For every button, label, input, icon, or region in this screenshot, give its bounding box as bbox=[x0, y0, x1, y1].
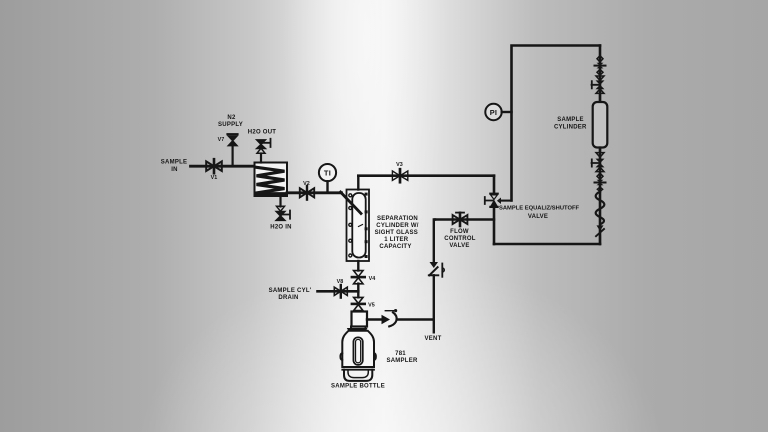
svg-text:1 LITER: 1 LITER bbox=[384, 237, 409, 243]
valve H2O OUT bbox=[248, 130, 277, 163]
svg-text:VALVE: VALVE bbox=[528, 214, 548, 220]
check valve vent bbox=[429, 262, 444, 277]
svg-text:FLOW: FLOW bbox=[450, 229, 469, 235]
svg-text:SUPPLY: SUPPLY bbox=[218, 122, 243, 128]
instrument PI bbox=[485, 104, 511, 120]
sample bottle body bbox=[342, 331, 374, 367]
svg-text:V7: V7 bbox=[218, 137, 225, 143]
sample bottle collar bbox=[347, 328, 368, 331]
svg-text:SAMPLE CYL': SAMPLE CYL' bbox=[269, 288, 312, 294]
wire N2 branch bbox=[232, 146, 234, 167]
wire flow control branch bbox=[435, 218, 494, 220]
node flow control label bbox=[444, 229, 475, 249]
valve V3 bbox=[392, 162, 407, 182]
node separator label bbox=[375, 216, 419, 250]
valve V1 bbox=[206, 159, 222, 181]
node SAMPLE CYLINDER label bbox=[554, 117, 587, 131]
check valve sampler bbox=[382, 309, 434, 326]
node equalizer valve label bbox=[499, 205, 580, 220]
heat exchanger coil bbox=[256, 167, 284, 193]
valve H2O IN bbox=[270, 196, 292, 230]
svg-text:IN: IN bbox=[171, 167, 178, 173]
sample bottle ear right bbox=[374, 353, 376, 360]
node VENT label bbox=[424, 336, 441, 342]
node SAMPLE IN label bbox=[161, 160, 188, 173]
sample bottle ear left bbox=[340, 353, 342, 360]
wire below equalizer valve bbox=[493, 207, 496, 244]
valve cylinder outlet bbox=[592, 148, 605, 172]
valve purge upper bbox=[595, 63, 606, 69]
svg-text:CAPACITY: CAPACITY bbox=[379, 244, 411, 250]
wire drain branch bbox=[318, 290, 359, 293]
wire vent drop lower bbox=[433, 275, 435, 332]
svg-text:CYLINDER: CYLINDER bbox=[554, 125, 587, 131]
node 781 SAMPLER label bbox=[386, 351, 418, 364]
fitting diamond lower bbox=[597, 173, 603, 179]
fitting diamond upper bbox=[597, 56, 603, 62]
valve V8 drain bbox=[334, 279, 347, 297]
sample cylinder vessel bbox=[593, 102, 608, 148]
valve V4 bbox=[352, 271, 375, 284]
svg-text:CONTROL: CONTROL bbox=[444, 236, 475, 242]
wire loop bottom bbox=[494, 243, 600, 246]
wire top line bbox=[358, 174, 494, 177]
wire diagonal into separator bbox=[341, 192, 362, 214]
node SAMPLE CYL DRAIN label bbox=[269, 288, 312, 301]
wire down to equalizer valve bbox=[493, 176, 496, 193]
svg-text:V3: V3 bbox=[396, 162, 403, 168]
svg-text:SAMPLER: SAMPLER bbox=[386, 358, 418, 364]
svg-text:PI: PI bbox=[490, 108, 498, 117]
wire sample inlet bbox=[191, 165, 255, 168]
svg-text:V5: V5 bbox=[368, 303, 375, 309]
sample bottle cup bbox=[344, 370, 372, 381]
node SAMPLE BOTTLE label bbox=[331, 384, 385, 390]
svg-text:N2: N2 bbox=[227, 115, 236, 121]
wire between V4 and tee bbox=[357, 284, 359, 298]
svg-text:SAMPLE BOTTLE: SAMPLE BOTTLE bbox=[331, 384, 385, 390]
pigtail coil bbox=[596, 192, 605, 225]
instrument TI bbox=[319, 164, 336, 193]
fitting diamond upper2 bbox=[597, 69, 603, 75]
check valve bottom right bbox=[596, 223, 604, 245]
svg-text:DRAIN: DRAIN bbox=[278, 295, 298, 301]
svg-text:SEPARATION: SEPARATION bbox=[377, 216, 418, 222]
valve sample equaliz/shutoff bbox=[485, 194, 512, 207]
wire sampler to vent line bbox=[367, 318, 382, 320]
sample bottle neck bbox=[351, 327, 366, 329]
wire HX outlet bbox=[287, 191, 342, 194]
valve V7 bbox=[218, 134, 238, 145]
sampler head box bbox=[352, 312, 368, 327]
svg-text:V2: V2 bbox=[303, 181, 310, 187]
wire separator bottom bbox=[357, 261, 359, 271]
sample bottle cup inner bbox=[348, 370, 368, 378]
svg-text:H2O IN: H2O IN bbox=[270, 224, 292, 230]
valve V2 bbox=[300, 181, 314, 200]
svg-text:V4: V4 bbox=[369, 276, 376, 282]
node N2 SUPPLY label bbox=[218, 115, 243, 128]
svg-text:VENT: VENT bbox=[424, 336, 441, 342]
heat exchanger box bbox=[255, 163, 288, 197]
wire loop left vertical bbox=[512, 46, 601, 201]
svg-text:SAMPLE EQUALIZ/SHUTOFF: SAMPLE EQUALIZ/SHUTOFF bbox=[499, 205, 580, 211]
valve cylinder inlet bbox=[592, 76, 605, 102]
svg-text:H2O OUT: H2O OUT bbox=[248, 130, 277, 136]
svg-text:VALVE: VALVE bbox=[449, 243, 469, 249]
svg-text:SIGHT GLASS: SIGHT GLASS bbox=[375, 230, 418, 236]
svg-text:V1: V1 bbox=[211, 175, 218, 181]
svg-text:781: 781 bbox=[395, 351, 406, 357]
svg-text:CYLINDER W/: CYLINDER W/ bbox=[376, 223, 418, 229]
valve purge lower bbox=[595, 180, 606, 192]
svg-text:SAMPLE: SAMPLE bbox=[161, 160, 188, 166]
wire separator to top line bbox=[357, 176, 359, 190]
wire loop right vertical bbox=[599, 46, 602, 245]
sample bottle band bbox=[342, 369, 374, 371]
sample bottle slot bbox=[353, 337, 362, 365]
svg-text:V8: V8 bbox=[337, 279, 344, 285]
separation cylinder bbox=[347, 190, 370, 262]
wire vent drop upper bbox=[434, 220, 435, 262]
svg-text:TI: TI bbox=[324, 168, 331, 177]
valve V5 bbox=[352, 297, 375, 310]
valve flow control bbox=[453, 213, 468, 226]
svg-text:SAMPLE: SAMPLE bbox=[557, 117, 584, 123]
